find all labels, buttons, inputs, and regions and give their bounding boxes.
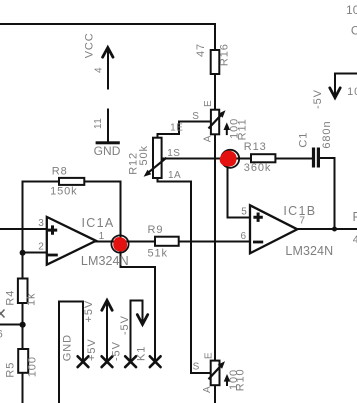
- resistor R5: [18, 349, 28, 373]
- potentiometer R12 body: [153, 138, 162, 178]
- svg-text:E: E: [204, 352, 215, 359]
- wire node to R13: [230, 157, 251, 159]
- wire top rail to R16: [0, 24, 215, 50]
- wire IC1B output to right edge: [296, 228, 357, 230]
- svg-text:51k: 51k: [148, 247, 168, 259]
- svg-text:R9: R9: [148, 224, 164, 236]
- svg-text:6: 6: [0, 328, 4, 340]
- svg-text:+5V: +5V: [86, 338, 98, 361]
- svg-text:VCC: VCC: [84, 32, 96, 58]
- X marks net stubs: [78, 356, 161, 367]
- wire R5 to bottom edge: [22, 373, 24, 403]
- svg-text:-5V: -5V: [111, 341, 123, 361]
- svg-text:-5V: -5V: [312, 89, 324, 109]
- svg-text:LM324N: LM324N: [285, 244, 333, 258]
- wire C1 right down to IC1B output: [320, 158, 335, 229]
- wire node down to IC1B pin5: [227, 158, 250, 217]
- wire R8 feedback left leg: [23, 181, 59, 278]
- svg-text:360k: 360k: [244, 162, 271, 174]
- svg-text:R4: R4: [4, 290, 16, 306]
- svg-text:3: 3: [38, 218, 44, 229]
- svg-text:E: E: [203, 100, 214, 107]
- svg-text:A: A: [202, 386, 213, 393]
- wire R11 S to corner: [157, 122, 211, 139]
- svg-text:4: 4: [353, 234, 357, 246]
- svg-text:11: 11: [93, 118, 104, 129]
- wire R12 wiper 1S to node: [161, 157, 230, 159]
- svg-text:1E: 1E: [170, 123, 183, 134]
- resistor R4: [18, 279, 28, 304]
- svg-text:GND: GND: [62, 334, 74, 361]
- ground symbol bar: [96, 141, 120, 144]
- svg-text:GND: GND: [94, 144, 121, 158]
- svg-text:4: 4: [94, 67, 105, 73]
- resistor R16: [211, 50, 220, 74]
- svg-text:680n: 680n: [321, 121, 333, 149]
- svg-text:R8: R8: [52, 165, 68, 177]
- svg-text:10: 10: [346, 3, 357, 17]
- -5V arrowhead bottom: [137, 315, 147, 325]
- resistor R9: [155, 237, 179, 246]
- capacitor C1 plates: [312, 148, 315, 168]
- svg-text:R11: R11: [237, 118, 249, 140]
- svg-text:2: 2: [38, 241, 44, 252]
- wire GND net hook: [59, 302, 83, 403]
- svg-text:F: F: [353, 210, 357, 224]
- potentiometer R10 adjust mark: [226, 380, 228, 386]
- wire R16 to R11: [214, 74, 216, 110]
- resistor R13: [251, 154, 275, 162]
- svg-text:7: 7: [299, 215, 305, 226]
- potentiometer R10 wiper arrow: [209, 366, 222, 380]
- svg-text:1A: 1A: [168, 170, 181, 181]
- wire R10 A to bottom edge: [214, 385, 216, 403]
- VCC arrowhead: [103, 48, 113, 58]
- svg-text:S: S: [193, 362, 200, 373]
- potentiometer R11 wiper arrow: [209, 115, 222, 129]
- svg-text:R16: R16: [219, 43, 231, 66]
- wire IC1A pin2 from junction: [23, 252, 47, 254]
- svg-text:1k: 1k: [25, 293, 37, 306]
- svg-text:LM324N: LM324N: [81, 254, 129, 268]
- junction dot pin2: [20, 250, 26, 256]
- svg-text:R10: R10: [235, 368, 247, 391]
- svg-text:+5V: +5V: [83, 300, 95, 323]
- junction dot IC1B output: [332, 227, 337, 232]
- svg-text:-5V: -5V: [119, 315, 131, 335]
- potentiometer R11 body: [211, 110, 219, 135]
- X stub K1: [125, 356, 136, 367]
- X stub -5V: [102, 356, 113, 367]
- wire R4 to R5: [22, 303, 24, 349]
- svg-text:50k: 50k: [138, 145, 150, 165]
- svg-text:1S: 1S: [167, 148, 180, 159]
- wire junction to left edge: [0, 324, 23, 326]
- wire +5V arrow shaft: [106, 301, 108, 361]
- svg-text:IC1A: IC1A: [82, 216, 115, 230]
- junction dot R4/R5: [20, 322, 26, 328]
- svg-text:C1: C1: [298, 132, 310, 148]
- svg-text:R5: R5: [5, 362, 17, 378]
- potentiometer R11 adjust mark: [226, 129, 228, 136]
- wire R8 right to drop into IC1A output node: [84, 181, 120, 244]
- edge fragment X left: [0, 310, 5, 318]
- wire R12 1A down right down to R10 S: [157, 178, 211, 373]
- wire R13 to C1: [275, 157, 312, 159]
- op-amp IC1A: [47, 217, 96, 265]
- wire IC1A output to R9: [94, 240, 155, 242]
- wire IC1A pin3 from left edge: [0, 228, 47, 230]
- op-amp IC1B: [250, 205, 297, 253]
- svg-text:K1: K1: [136, 346, 148, 361]
- svg-text:5: 5: [241, 207, 247, 218]
- svg-text:150k: 150k: [50, 186, 77, 198]
- X stub feedback: [150, 356, 161, 367]
- wire -5V top right: [335, 74, 357, 97]
- red marker node R12/R13: [221, 150, 239, 168]
- wire GND symbol stem: [107, 108, 109, 142]
- svg-text:C: C: [351, 23, 357, 37]
- wire R11 A down to R10 E: [214, 134, 216, 361]
- svg-text:1: 1: [99, 231, 105, 242]
- svg-text:47: 47: [195, 43, 207, 57]
- +5V arrowhead: [102, 300, 112, 310]
- wire -5V hook shaft: [131, 301, 143, 361]
- wire VCC arrow shaft: [107, 48, 109, 90]
- resistor R8: [59, 178, 84, 185]
- X stub GND/+5V: [78, 356, 89, 367]
- svg-text:R13: R13: [244, 141, 267, 153]
- -5V arrowhead top right: [330, 88, 340, 98]
- svg-text:100: 100: [27, 356, 39, 377]
- wire R9 to IC1B pin6: [179, 240, 250, 242]
- svg-text:A: A: [203, 135, 214, 142]
- svg-text:S: S: [192, 111, 199, 122]
- svg-text:10: 10: [347, 86, 357, 98]
- wire IC1A output node down right down to X4: [120, 244, 155, 361]
- svg-text:6: 6: [241, 231, 247, 242]
- potentiometer R10 body: [211, 361, 220, 386]
- potentiometer R12 wiper arrow: [147, 158, 167, 174]
- red marker node IC1A output: [111, 235, 128, 252]
